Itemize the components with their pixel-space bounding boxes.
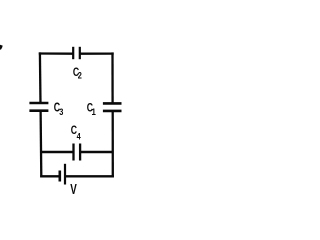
stray cropped glyph at left edge — [0, 45, 3, 50]
svg-text:4: 4 — [77, 132, 81, 142]
label V — [70, 180, 77, 198]
wire top-left segment — [39, 52, 73, 55]
svg-text:V: V — [70, 180, 77, 198]
label C3 — [54, 101, 64, 117]
wire right upper segment — [111, 52, 113, 103]
label C4 — [71, 124, 81, 142]
wire right lower segment — [112, 111, 114, 177]
wire top-right segment — [80, 52, 114, 54]
wire left lower segment — [39, 110, 42, 177]
label C2 — [73, 66, 82, 81]
wire bottom-left segment — [40, 175, 60, 177]
svg-text:1: 1 — [92, 106, 96, 117]
label C1 — [87, 101, 96, 117]
capacitor C1 plates — [103, 103, 122, 111]
capacitor C4 plates — [74, 144, 81, 161]
wire bottom-right segment — [65, 175, 114, 177]
svg-text:3: 3 — [59, 107, 63, 117]
capacitor C2 plates — [73, 47, 80, 59]
wire middle-right segment — [80, 151, 113, 153]
wire middle-left segment — [40, 151, 73, 153]
svg-text:2: 2 — [78, 71, 82, 81]
capacitor C3 plates — [29, 103, 48, 111]
wire left upper segment — [39, 52, 42, 104]
battery V plates — [60, 164, 65, 185]
